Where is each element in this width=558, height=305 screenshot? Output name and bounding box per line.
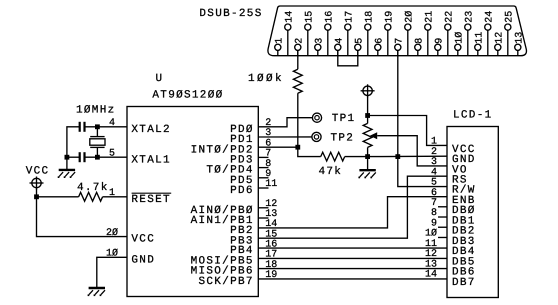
connector pin 7 xyxy=(394,38,405,56)
wire GND pin10 xyxy=(97,257,127,288)
connector pin 9 xyxy=(434,38,445,56)
wire DSUB pin7 down to GND net xyxy=(397,50,399,156)
svg-text:PD6: PD6 xyxy=(230,185,254,197)
wire PB4 to LCD DB4 xyxy=(258,247,447,249)
resistor R3 4.7k xyxy=(79,192,103,201)
display LCD-1 body xyxy=(447,127,498,298)
ground xyxy=(367,157,369,171)
connector pin 19 xyxy=(384,11,395,56)
wire C1 left xyxy=(67,127,80,157)
connector pin 17 xyxy=(344,11,355,56)
connector pin 22 xyxy=(444,11,455,56)
svg-text:1ØMHz: 1ØMHz xyxy=(76,104,116,116)
wire junction down to R2 xyxy=(298,147,321,156)
connector pin 10 xyxy=(454,32,465,56)
svg-text:1: 1 xyxy=(274,38,285,44)
connector pin 16 xyxy=(324,11,335,56)
svg-text:25: 25 xyxy=(504,11,515,23)
wire stub xyxy=(438,236,447,238)
svg-text:VCC: VCC xyxy=(131,234,155,246)
connector pin 24 xyxy=(484,11,495,56)
connector pin 14 xyxy=(284,11,295,56)
connector pin 13 xyxy=(514,32,525,56)
RESET overline xyxy=(132,192,172,194)
connector pin 3 xyxy=(314,38,325,56)
potentiometer wiper arrow xyxy=(370,132,377,139)
svg-text:TP2: TP2 xyxy=(331,132,355,144)
svg-text:17: 17 xyxy=(344,11,355,23)
power symbol VCC (top) xyxy=(363,86,372,95)
connector pin 20 xyxy=(404,11,415,56)
svg-text:14: 14 xyxy=(284,11,295,23)
svg-text:2Ø: 2Ø xyxy=(404,11,415,23)
svg-text:SCK/PB7: SCK/PB7 xyxy=(198,276,253,288)
connector pin 5 xyxy=(354,38,365,56)
svg-text:TP1: TP1 xyxy=(332,113,356,125)
svg-text:2: 2 xyxy=(294,38,305,44)
wire stub xyxy=(258,156,268,158)
svg-text:XTAL1: XTAL1 xyxy=(131,154,171,166)
node crystal top xyxy=(95,124,100,129)
capacitor C1 xyxy=(83,122,85,132)
svg-text:21: 21 xyxy=(424,11,435,23)
wire stub xyxy=(258,167,268,169)
node DSUB7 / gnd net xyxy=(395,154,400,159)
crystal X1 xyxy=(96,127,98,137)
wire wiper to LCD VO xyxy=(377,136,447,166)
svg-text:3: 3 xyxy=(314,38,325,44)
connector pin 21 xyxy=(424,11,435,56)
wire to R3 xyxy=(37,196,79,198)
connector pin 23 xyxy=(464,11,475,56)
connector pin 18 xyxy=(364,11,375,56)
svg-text:11: 11 xyxy=(474,32,485,44)
svg-text:XTAL2: XTAL2 xyxy=(131,124,171,136)
svg-text:12: 12 xyxy=(494,32,505,44)
wire gnd net to LCD GND xyxy=(368,155,447,157)
node C1/C2/gnd xyxy=(65,155,70,160)
svg-text:7: 7 xyxy=(394,38,405,44)
svg-text:23: 23 xyxy=(464,11,475,23)
connector pin 4 xyxy=(334,38,345,56)
connector pin 15 xyxy=(304,11,315,56)
wire XTAL2 xyxy=(85,126,128,128)
resistor R2 47k xyxy=(321,152,345,161)
svg-text:47k: 47k xyxy=(319,166,343,178)
wire DSUB pin2 to R1 xyxy=(297,50,299,69)
connector pin 6 xyxy=(374,38,385,56)
node pot top junction xyxy=(365,113,370,118)
svg-text:6: 6 xyxy=(374,38,385,44)
svg-text:U: U xyxy=(156,73,164,85)
capacitor C2 xyxy=(83,152,85,162)
wire XTAL1 xyxy=(85,156,128,158)
svg-text:RESET: RESET xyxy=(131,194,171,206)
potentiometer VR1 xyxy=(363,123,372,147)
node VCC junction xyxy=(34,194,39,199)
resistor R1 100k xyxy=(293,69,302,93)
wire stub xyxy=(258,217,268,219)
svg-text:15: 15 xyxy=(304,11,315,23)
svg-text:DSUB-25S: DSUB-25S xyxy=(199,8,262,20)
ground xyxy=(96,287,98,289)
svg-text:16: 16 xyxy=(324,11,335,23)
ground xyxy=(66,157,68,170)
wire R1 to PD2 junction xyxy=(297,93,299,147)
node PD2/R1/R2 junction xyxy=(295,145,300,150)
connector pin 12 xyxy=(494,32,505,56)
wire stub xyxy=(438,226,447,228)
connector pin 2 xyxy=(294,38,305,56)
svg-text:4.7k: 4.7k xyxy=(77,182,109,194)
test point TP1 xyxy=(312,113,321,122)
wire PB7 to LCD DB7 xyxy=(258,278,447,280)
wire PB2 to LCD ENB xyxy=(258,197,447,228)
wire PB3 to LCD RS xyxy=(258,176,447,238)
svg-text:22: 22 xyxy=(444,11,455,23)
wire PD0 to TP1 xyxy=(258,118,312,127)
wire PB6 to LCD DB6 xyxy=(258,268,447,270)
svg-text:AT9ØS12ØØ: AT9ØS12ØØ xyxy=(152,90,223,102)
wire stub xyxy=(438,216,447,218)
wire R3 to RESET xyxy=(103,196,127,198)
wire stub xyxy=(438,206,447,208)
svg-text:19: 19 xyxy=(384,11,395,23)
svg-text:DB7: DB7 xyxy=(452,277,476,289)
connector pin 25 xyxy=(504,11,515,56)
IC U AT90S1200 body xyxy=(127,107,258,297)
svg-text:1ØØk: 1ØØk xyxy=(248,73,284,85)
wire power to pot top xyxy=(367,97,369,124)
svg-text:5: 5 xyxy=(354,38,365,44)
wire VCC to pin20 xyxy=(37,197,128,237)
wire DSUB pin7 gnd to LCD R/W xyxy=(398,157,447,187)
wire stub xyxy=(258,207,268,209)
svg-text:GND: GND xyxy=(131,254,155,266)
wire power to LCD VCC xyxy=(368,116,447,146)
svg-text:8: 8 xyxy=(414,38,425,44)
node pot bottom / gnd xyxy=(365,154,370,159)
connector pin 8 xyxy=(414,38,425,56)
svg-text:VCC: VCC xyxy=(26,166,50,178)
wire PD1 to TP2 xyxy=(258,136,312,138)
wire DSUB pin4-pin5 jumper xyxy=(338,50,358,65)
connector pin 1 xyxy=(274,38,285,56)
svg-text:4: 4 xyxy=(334,38,345,44)
svg-text:9: 9 xyxy=(434,38,445,44)
connector J1 DSUB-25S outline xyxy=(268,6,527,56)
wire PD2 to junction xyxy=(258,146,298,148)
svg-text:13: 13 xyxy=(514,32,525,44)
test point TP2 xyxy=(312,132,321,141)
svg-text:1Ø: 1Ø xyxy=(454,32,465,44)
wire stub xyxy=(258,177,268,179)
wire R2 to pot bottom junction xyxy=(345,156,368,158)
node crystal bottom xyxy=(95,155,100,160)
svg-text:LCD-1: LCD-1 xyxy=(453,110,493,122)
svg-text:18: 18 xyxy=(364,11,375,23)
wire PB5 to LCD DB5 xyxy=(258,257,447,259)
wire stub xyxy=(258,187,268,189)
connector pin 11 xyxy=(474,32,485,56)
wire C2 left xyxy=(67,156,80,158)
wire VCC down xyxy=(36,189,38,197)
svg-text:24: 24 xyxy=(484,11,495,23)
